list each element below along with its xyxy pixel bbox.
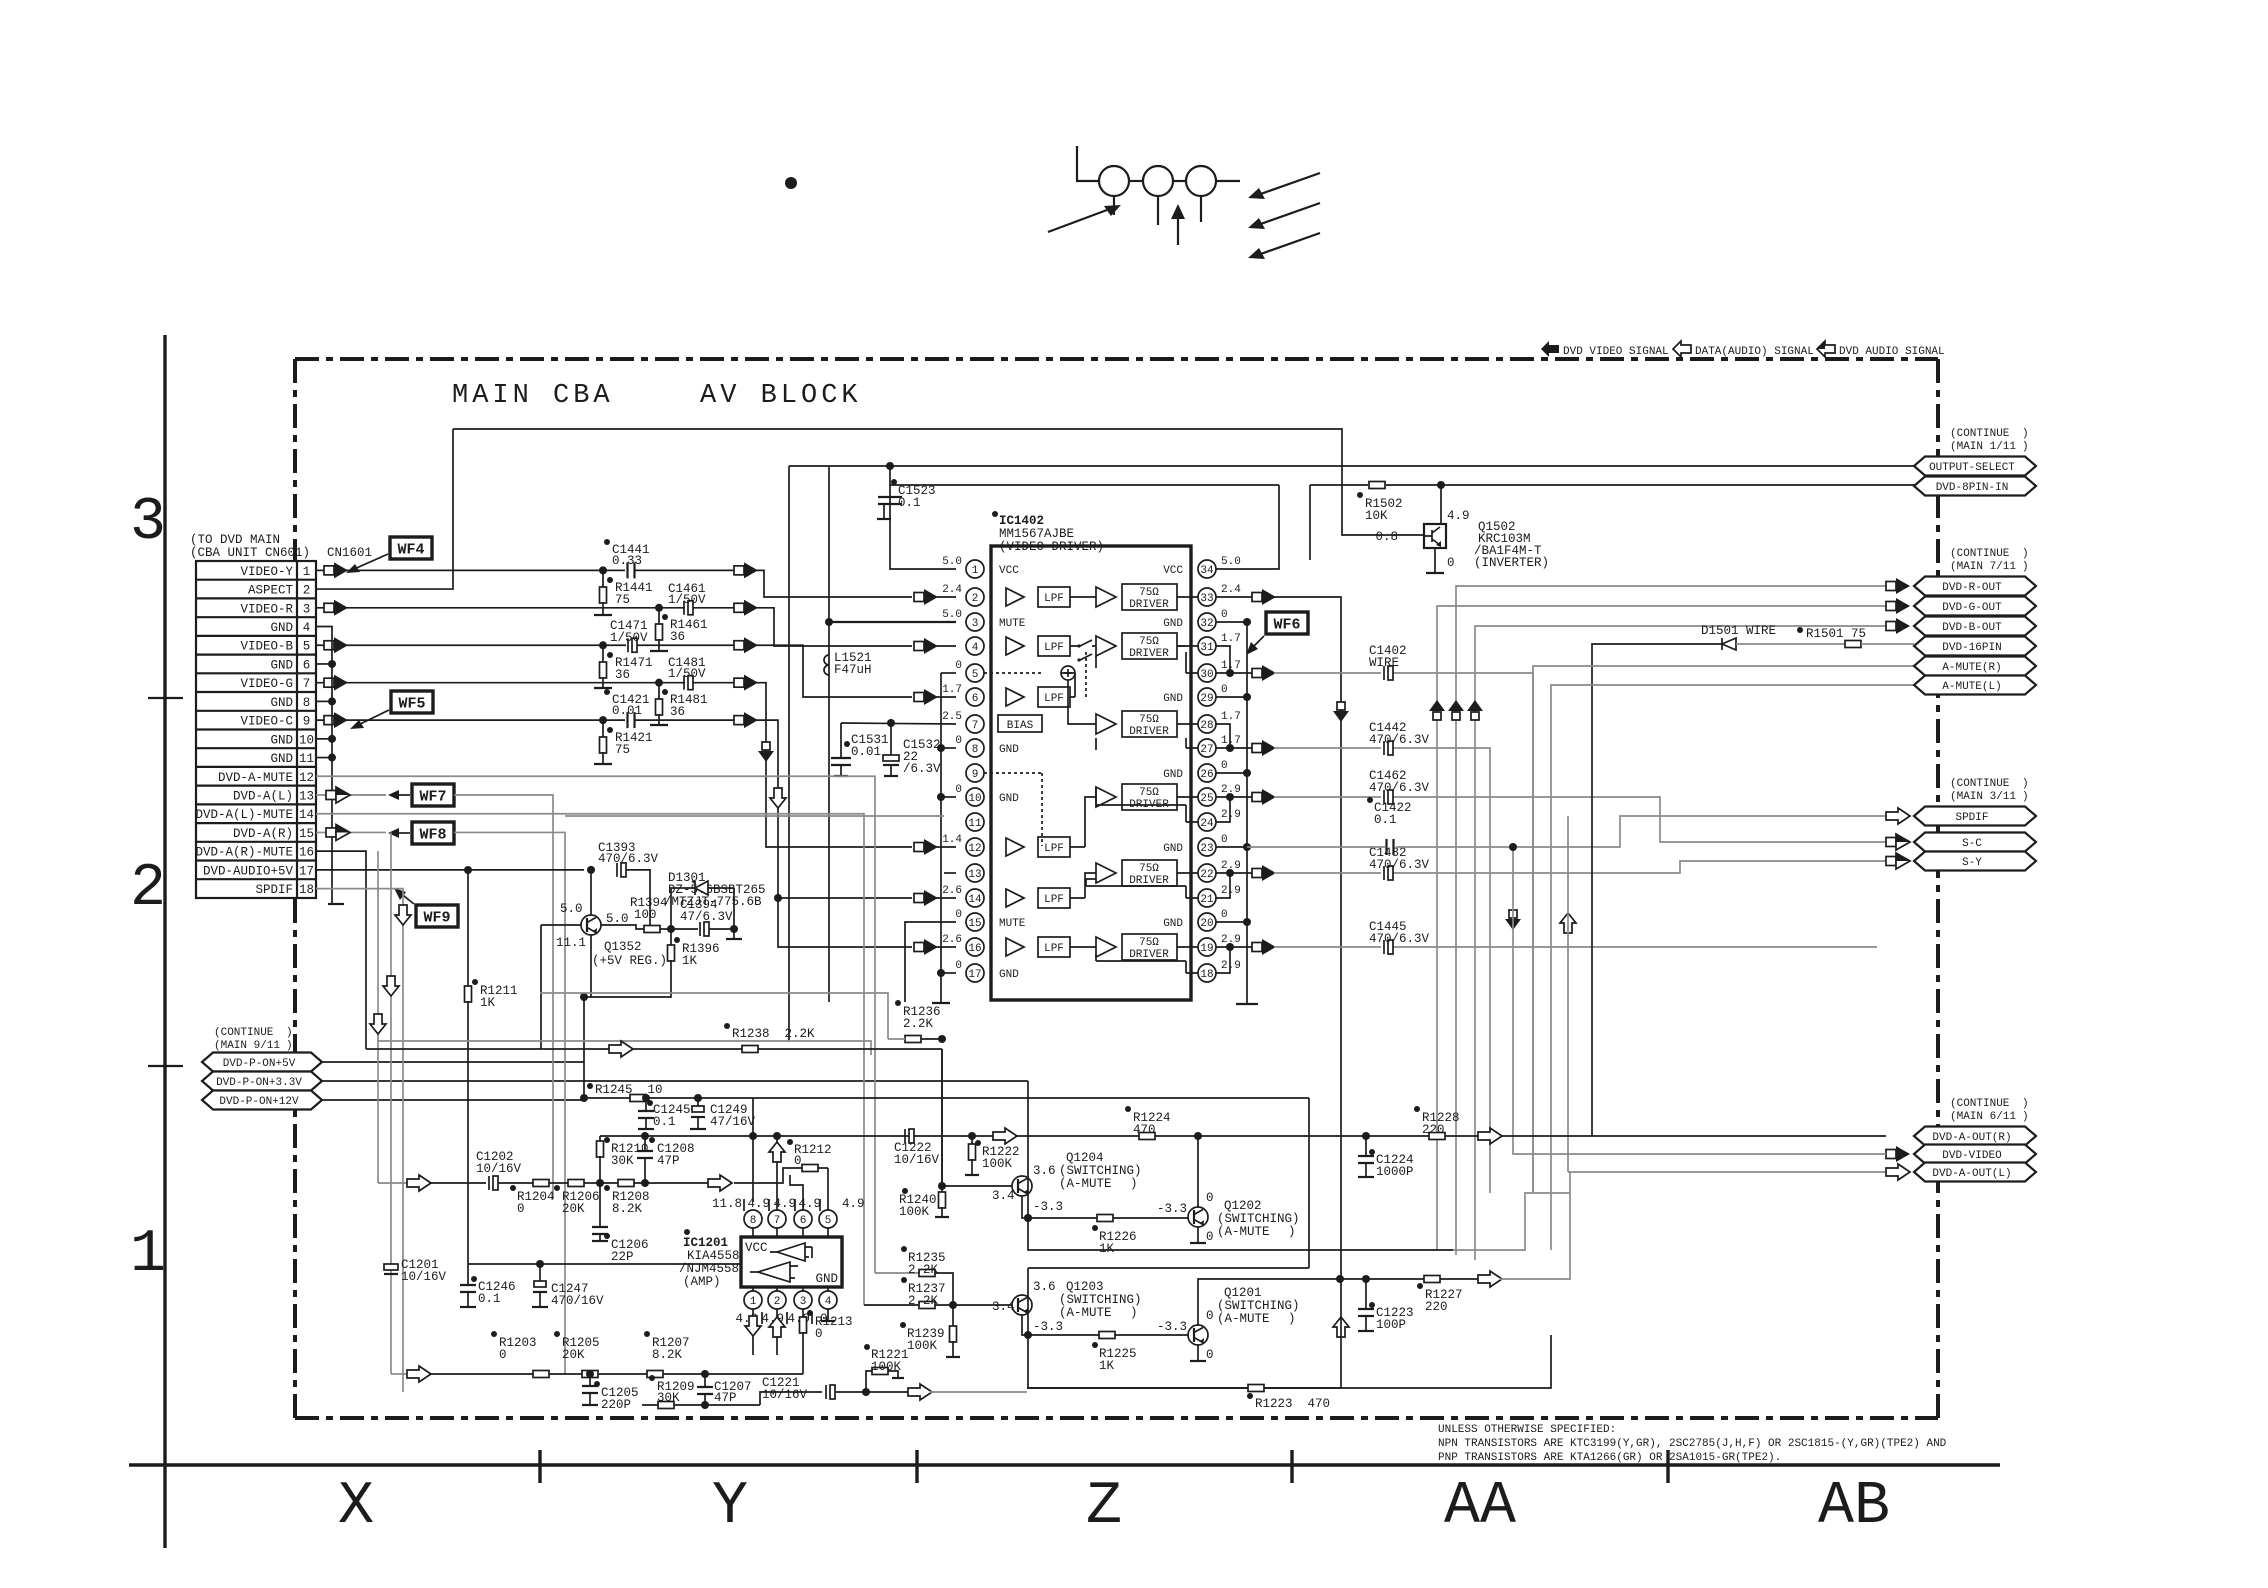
IC1402 pin 32 circle <box>1198 613 1216 631</box>
junction C1532 node <box>887 719 895 727</box>
junction pin30 output node <box>1226 669 1234 677</box>
svg-text:DVD-A(R): DVD-A(R) <box>233 827 293 841</box>
signal arrow into pin4 <box>914 642 924 651</box>
svg-text:S-Y: S-Y <box>1962 857 1982 869</box>
WF5 pointer arrow <box>356 710 389 726</box>
svg-text:F47uH: F47uH <box>834 663 872 677</box>
signal arrow pin25 output <box>1252 793 1262 802</box>
svg-text:8.2K: 8.2K <box>652 1348 683 1362</box>
IC1402 pin 8 circle <box>966 739 984 757</box>
svg-text:12: 12 <box>968 843 981 855</box>
svg-text:(A-MUTE: (A-MUTE <box>1217 1312 1270 1326</box>
svg-text:0: 0 <box>1447 556 1455 570</box>
IC1402 pin 11 circle <box>966 813 984 831</box>
legend icon DATA(AUDIO) SIGNAL <box>1673 341 1691 357</box>
solid down arrow on VIDEO-G jog <box>762 742 770 750</box>
junction pin25 output node <box>1226 793 1234 801</box>
audio arrow DVD-A(R) <box>326 828 336 837</box>
svg-text:75: 75 <box>615 743 630 757</box>
svg-text:1: 1 <box>303 565 311 579</box>
capacitor C1207 47P <box>704 1374 706 1386</box>
resistor R1223 470 <box>1248 1385 1264 1392</box>
solid up arrow on DVD-R riser <box>1452 712 1460 720</box>
svg-text:75Ω: 75Ω <box>1139 787 1159 799</box>
ground for R1441 <box>594 614 612 616</box>
svg-text:ASPECT: ASPECT <box>248 584 294 598</box>
svg-text:470/6.3V: 470/6.3V <box>1369 781 1430 795</box>
capacitor C1421 0.01 <box>628 712 635 728</box>
wire Q1202 collector to audio rail <box>1197 1136 1199 1207</box>
svg-text:LPF: LPF <box>1044 642 1064 654</box>
svg-text:32: 32 <box>1200 618 1213 630</box>
svg-text:0.1: 0.1 <box>653 1115 676 1129</box>
svg-text:5.0: 5.0 <box>606 912 629 926</box>
column tick X-Y <box>538 1450 541 1483</box>
svg-text:WF7: WF7 <box>419 789 446 806</box>
capacitor C1462 470/6.3V <box>1383 790 1385 804</box>
signal arrow into pin16 <box>914 943 924 952</box>
wire bottom out to right <box>930 1391 1027 1393</box>
junction C1245 node <box>642 1094 650 1102</box>
svg-text:47/6.3V: 47/6.3V <box>680 910 733 924</box>
ground for R1461 <box>650 650 668 652</box>
junction C1224 node <box>1362 1132 1370 1140</box>
svg-text:2.9: 2.9 <box>1221 809 1241 821</box>
wire Q1202 emitter to ground <box>1197 1227 1199 1242</box>
WF6 pointer arrow <box>1250 636 1264 650</box>
resistor R1237 2.2K <box>919 1302 935 1309</box>
decoration link wire 2-3 <box>1173 180 1186 182</box>
wire Q1352 base drop <box>540 925 542 1049</box>
junction node VIDEO-Y / R1441 <box>599 566 607 574</box>
junction rail / C1523 feed <box>886 462 894 470</box>
svg-text:0: 0 <box>955 960 962 972</box>
connector row divider 1 <box>196 579 316 581</box>
svg-text:DVD-8PIN-IN: DVD-8PIN-IN <box>1936 482 2009 494</box>
wire VIDEO-G to pin12 jog <box>760 683 912 847</box>
svg-text:): ) <box>2022 1111 2029 1123</box>
svg-text:14: 14 <box>968 894 982 906</box>
svg-text:OUTPUT-SELECT: OUTPUT-SELECT <box>1929 462 2015 474</box>
IC1402 driver amp triangle pin 19 <box>1096 937 1116 957</box>
resistor R1204 0 <box>533 1180 549 1187</box>
open arrow into DVD-A-OUT(L) <box>1886 1164 1910 1180</box>
decoration reel circle 1 <box>1099 166 1129 196</box>
svg-text:7: 7 <box>303 677 311 691</box>
svg-text:470/6.3V: 470/6.3V <box>1369 858 1430 872</box>
svg-text:GND: GND <box>270 621 293 635</box>
main block dash-dot border right edge <box>1936 359 1940 1418</box>
wire DVD-A(L) row 13 net continue <box>454 795 553 1199</box>
IC1402 pin 17 circle <box>966 964 984 982</box>
gray audio return wire 2 <box>377 1041 871 1055</box>
IC1402 driver output stubs <box>1177 597 1198 947</box>
wire DVD-A(R)-MUTE row 16 net <box>316 851 366 1049</box>
open arrow into DVD-A-OUT(R) <box>1478 1128 1502 1144</box>
wire DVD-P-ON+12V net <box>322 1098 584 1100</box>
left arrowhead WF7 <box>360 794 386 796</box>
connector row divider 14 <box>196 822 316 824</box>
transistor Q1201 switching A-mute <box>1188 1325 1208 1345</box>
IC1402 pin 10 circle <box>966 788 984 806</box>
junction R1210 bottom <box>596 1179 604 1187</box>
svg-text:10: 10 <box>299 733 314 747</box>
legend icon DVD VIDEO SIGNAL <box>1541 341 1559 357</box>
svg-text:22P: 22P <box>611 1250 634 1264</box>
svg-text:0: 0 <box>517 1202 525 1216</box>
svg-text:-3.3: -3.3 <box>1157 1202 1187 1216</box>
resistor R1502 10K <box>1310 484 1368 486</box>
svg-text:GND: GND <box>270 696 293 710</box>
waveform label WF6 <box>1266 612 1308 634</box>
junction node VIDEO-R / R1461 <box>655 604 663 612</box>
signal arrow VIDEO-Y to IC <box>734 566 744 575</box>
wire pin3 MUTE <box>829 621 956 623</box>
capacitor C1202 10/16V <box>488 1176 490 1190</box>
junction pin 20 on GND bus <box>1243 918 1251 926</box>
svg-text:7: 7 <box>774 1215 781 1227</box>
wire base feed Q1203 <box>864 1304 1012 1306</box>
net flag S-C <box>1914 833 2036 852</box>
signal arrow pin19 output <box>1252 943 1262 952</box>
wire left GND bus of IC <box>940 673 942 1002</box>
wire pin13 stub <box>944 872 956 874</box>
svg-text:0: 0 <box>499 1348 507 1362</box>
svg-text:VIDEO-G: VIDEO-G <box>240 677 293 691</box>
svg-text:16: 16 <box>968 943 981 955</box>
capacitor C1221 10/16V <box>825 1385 827 1399</box>
IC1402 pin 4 circle <box>966 637 984 655</box>
svg-text:-3.3: -3.3 <box>1033 1320 1063 1334</box>
junction pin3 MUTE node <box>825 618 833 626</box>
resistor R1212 0 <box>802 1165 818 1172</box>
svg-text:10: 10 <box>968 793 981 805</box>
svg-text:75Ω: 75Ω <box>1139 714 1159 726</box>
svg-text:100K: 100K <box>907 1339 938 1353</box>
svg-text:(+5V REG.): (+5V REG.) <box>592 954 667 968</box>
svg-text:VIDEO-Y: VIDEO-Y <box>240 565 293 579</box>
decoration reel circle 2 <box>1143 166 1173 196</box>
wire VIDEO-B to pin6 jog <box>760 645 912 697</box>
wire pin34 riser <box>1216 485 1279 569</box>
waveform label WF7 <box>412 784 454 806</box>
net flag DVD-A-OUT(R) <box>1914 1127 2036 1146</box>
svg-text:(MAIN 7/11: (MAIN 7/11 <box>1950 561 2016 573</box>
svg-text:): ) <box>286 1027 293 1039</box>
svg-text:MUTE: MUTE <box>999 618 1026 630</box>
signal arrow VIDEO-C to IC <box>734 716 744 725</box>
svg-text:(A-MUTE: (A-MUTE <box>1217 1225 1270 1239</box>
svg-text:DVD-G-OUT: DVD-G-OUT <box>1942 602 2002 614</box>
decoration incoming arrow 3 <box>1255 233 1320 256</box>
junction zener left node <box>667 925 675 933</box>
svg-text:16: 16 <box>299 846 314 860</box>
resistor R1421 75 <box>602 720 604 738</box>
wire pin27 output row (DVD-B) <box>1230 747 1252 749</box>
svg-text:WF5: WF5 <box>398 696 425 713</box>
svg-text:100: 100 <box>634 908 657 922</box>
svg-text:4: 4 <box>303 621 311 635</box>
junction GND bus row 10 <box>328 735 336 743</box>
svg-text:X: X <box>338 1473 374 1541</box>
svg-text:2.9: 2.9 <box>1221 885 1241 897</box>
wire Q1352 output through R1394 <box>601 925 644 929</box>
svg-text:18: 18 <box>299 883 314 897</box>
IC1402 pin 31 circle <box>1198 637 1216 655</box>
junction Q1352 on +5V audio net <box>587 866 595 874</box>
svg-text:DRIVER: DRIVER <box>1129 726 1169 738</box>
decoration up arrow under reel 2 <box>1177 212 1179 245</box>
signal arrow into DVD-VIDEO <box>1886 1150 1896 1159</box>
signal arrow VIDEO-R input <box>324 603 334 612</box>
riser wire to DVD-B-OUT flag <box>1475 626 1886 1260</box>
IC1402 pin 9 circle <box>966 764 984 782</box>
junction C1394 right node <box>730 925 738 933</box>
svg-text:1/50V: 1/50V <box>610 631 648 645</box>
svg-text:100K: 100K <box>982 1157 1013 1171</box>
capacitor C1445 470/6.3V <box>1383 940 1385 954</box>
IC1402 pin 28 circle <box>1198 715 1216 733</box>
wire mute out to R1227 <box>1366 1278 1424 1280</box>
ground for C1532 <box>884 775 898 777</box>
wire C1523 branch down to pin1 VCC <box>890 466 956 569</box>
IC1402 pin 18 circle <box>1198 964 1216 982</box>
svg-text:GND: GND <box>1163 618 1183 630</box>
decoration diagonal arrow into reel 1 <box>1048 207 1115 232</box>
ground for R1421 <box>594 763 612 765</box>
wire ASPECT rail to inverter base <box>453 429 1424 535</box>
resistor R1238 2.2K <box>742 1046 758 1053</box>
svg-text:AA: AA <box>1444 1473 1516 1541</box>
svg-text:VCC: VCC <box>999 565 1019 577</box>
signal arrow pin22 output <box>1252 869 1262 878</box>
waveform label WF9 <box>416 905 458 927</box>
svg-text:3.4: 3.4 <box>992 1300 1015 1314</box>
svg-text:24: 24 <box>1200 818 1214 830</box>
IC1201 labels <box>684 1229 690 1235</box>
wire SPDIF return vertical <box>1567 816 1569 1172</box>
column tick Y-Z <box>915 1450 918 1483</box>
IC1201 pin1 drop with down arrow <box>752 1309 754 1355</box>
svg-text:75Ω: 75Ω <box>1139 636 1159 648</box>
svg-text:VCC: VCC <box>745 1241 768 1255</box>
svg-text:75Ω: 75Ω <box>1139 937 1159 949</box>
svg-text:2.9: 2.9 <box>1221 960 1241 972</box>
svg-text:2.2K: 2.2K <box>908 1263 939 1277</box>
open arrow audio chain 2 <box>407 1366 431 1382</box>
signal arrow VIDEO-B input <box>324 641 334 650</box>
riser wire to DVD-R-OUT flag <box>1456 586 1886 1255</box>
wire GND stub row 6 <box>316 663 332 665</box>
wire DVD-A(R) row 15 net continue <box>454 832 565 1374</box>
wire pin21 join to pin22 row <box>1216 873 1230 898</box>
svg-text:DRIVER: DRIVER <box>1129 648 1169 660</box>
svg-text:34: 34 <box>1200 565 1214 577</box>
junction R1211 top on +5V audio net <box>464 866 472 874</box>
wire Q1352 base left <box>541 924 581 926</box>
wire 5V rail drop <box>788 466 790 1041</box>
wire WF9 net horizontal <box>366 1048 742 1050</box>
junction R1502 / DVD-8PIN-IN net <box>1437 481 1445 489</box>
wire R1502 feed vertical <box>1309 485 1311 560</box>
wire 5V rail (OUTPUT-SELECT net) <box>789 465 2036 467</box>
junction R1222 node <box>968 1132 976 1140</box>
svg-text:(CBA UNIT CN601): (CBA UNIT CN601) <box>190 546 310 560</box>
IC1402 input buffer triangle pin 6 <box>1006 688 1024 706</box>
wire pin22 output row (S-Y) <box>1230 872 1252 874</box>
gray drop with down arrow A <box>390 832 392 1374</box>
transistor Q1204 switching A-mute <box>1012 1176 1032 1196</box>
capacitor C1205 220P <box>589 1374 591 1385</box>
svg-text:20K: 20K <box>562 1348 585 1362</box>
signal arrow into DVD-R-OUT <box>1886 582 1896 591</box>
svg-text:0.8: 0.8 <box>1375 530 1398 544</box>
wire collector of Q1502 <box>1440 485 1442 524</box>
IC1402 75 ohm DRIVER block pin 25 <box>1122 784 1177 810</box>
wire VIDEO-G row <box>316 682 685 684</box>
wire VIDEO-Y to pin2 jog <box>760 570 912 597</box>
svg-text:10/16V: 10/16V <box>401 1270 447 1284</box>
junction R1239 node <box>949 1301 957 1309</box>
svg-text:): ) <box>2022 548 2029 560</box>
op-amp A triangle inside IC1201 <box>777 1243 805 1261</box>
decoration dot <box>785 177 797 189</box>
svg-text:2: 2 <box>130 855 166 923</box>
IC1402 pin 20 circle <box>1198 913 1216 931</box>
resistor R1396 1K <box>670 929 672 946</box>
svg-text:23: 23 <box>1200 843 1213 855</box>
wire GND stub row 8 <box>316 700 332 702</box>
svg-text:10K: 10K <box>1365 509 1388 523</box>
svg-text:47/16V: 47/16V <box>710 1115 756 1129</box>
svg-text:0.01: 0.01 <box>851 745 881 759</box>
svg-text:A-MUTE(R): A-MUTE(R) <box>1942 662 2001 674</box>
svg-text:DVD-A-OUT(L): DVD-A-OUT(L) <box>1932 1168 2011 1180</box>
svg-text:(CONTINUE: (CONTINUE <box>214 1027 274 1039</box>
waveform label WF5 <box>391 691 433 713</box>
ground for C1245 <box>638 1128 654 1130</box>
connector row divider 2 <box>196 597 316 599</box>
svg-text:(A-MUTE: (A-MUTE <box>1059 1306 1112 1320</box>
wire DVD-16PIN feed riser <box>1592 644 1722 1136</box>
transistor Q1202 switching A-mute <box>1188 1207 1208 1227</box>
svg-text:15: 15 <box>299 827 314 841</box>
wire pin33 output row <box>1216 596 1252 598</box>
decoration stem under reel 2 <box>1157 196 1159 225</box>
svg-text:0: 0 <box>955 660 962 672</box>
svg-text:LPF: LPF <box>1044 894 1064 906</box>
svg-text:28: 28 <box>1200 720 1213 732</box>
svg-text:3: 3 <box>972 618 979 630</box>
solid down arrow lower right <box>1509 910 1517 918</box>
wire SPDIF row 18 net <box>316 889 403 1392</box>
wire Q1201 emitter to ground <box>1197 1345 1199 1360</box>
IC1402 pin 1 circle <box>966 560 984 578</box>
capacitor C1249 47/16V <box>697 1098 699 1108</box>
svg-text:(AMP): (AMP) <box>683 1275 721 1289</box>
IC1402 LPF block pin 4 <box>1038 636 1070 656</box>
svg-text:1: 1 <box>750 1296 757 1308</box>
wire DVD-8PIN-IN net <box>1441 484 2036 486</box>
capacitor C1532 22/6.3V <box>883 755 899 761</box>
svg-text:GND: GND <box>999 969 1019 981</box>
main block dash-dot border bottom edge <box>295 1416 1938 1420</box>
svg-text:100P: 100P <box>1376 1318 1406 1332</box>
resistor R1203 0 <box>533 1371 549 1378</box>
svg-text:1K: 1K <box>1099 1242 1115 1256</box>
svg-text:): ) <box>1288 1312 1296 1326</box>
svg-text:2.2K: 2.2K <box>908 1294 939 1308</box>
resistor R1206 20K <box>568 1180 584 1187</box>
wire DVD-VIDEO riser <box>1513 847 1886 1154</box>
svg-text:0: 0 <box>815 1327 823 1341</box>
wire pin15 MUTE stub <box>905 922 956 1002</box>
svg-text:0: 0 <box>1221 609 1228 621</box>
junction R1209/C1207 nodes <box>701 1370 709 1378</box>
svg-text:DVD VIDEO SIGNAL: DVD VIDEO SIGNAL <box>1563 346 1669 358</box>
svg-text:LPF: LPF <box>1044 843 1064 855</box>
svg-text:): ) <box>2022 428 2029 440</box>
IC1201 top pins 8 7 6 5 <box>744 1210 762 1228</box>
connector row divider 7 <box>196 691 316 693</box>
IC1402 pin 21 circle <box>1198 889 1216 907</box>
wire GND bus from connector pins 4,6,8,10,11 <box>316 627 332 898</box>
ground for C1246 <box>460 1306 476 1308</box>
resistor R1213 0 on pin3 drop <box>802 1309 804 1318</box>
wire DVD-A-MUTE row 12 net <box>316 776 875 1273</box>
svg-text:33: 33 <box>1200 593 1213 605</box>
svg-text:2.6: 2.6 <box>942 934 962 946</box>
capacitor C1222 10/16V <box>904 1129 906 1143</box>
IC1402 75 ohm DRIVER block pin 22 <box>1122 860 1177 886</box>
open up arrow lower right <box>1560 913 1576 933</box>
svg-text:DVD-AUDIO+5V: DVD-AUDIO+5V <box>203 864 294 878</box>
connector row divider 3 <box>196 616 316 618</box>
capacitor C1481 1/50V <box>683 676 685 690</box>
svg-text:13: 13 <box>968 869 981 881</box>
column tick Z-AA <box>1290 1450 1293 1483</box>
svg-text:0.1: 0.1 <box>1374 813 1397 827</box>
resistor R1207 8.2K <box>647 1371 663 1378</box>
wire pin17 GND stub <box>941 972 956 974</box>
net flag DVD-8PIN-IN <box>1914 477 2036 496</box>
svg-text:100K: 100K <box>899 1205 930 1219</box>
svg-text:220: 220 <box>1425 1300 1448 1314</box>
zener diode D1301 <box>671 888 734 929</box>
junction R1240 node <box>938 1182 946 1190</box>
IC1402 input buffer triangle pin 12 <box>1006 838 1024 856</box>
wire pin 26 GND stub to bus <box>1216 772 1247 774</box>
connector row divider 13 <box>196 803 316 805</box>
signal arrow VIDEO-R to IC <box>734 603 744 612</box>
capacitor C1394 47/6.3V <box>671 928 698 930</box>
svg-text:GND: GND <box>1163 693 1183 705</box>
open up arrow on R1223 riser <box>1333 1317 1349 1337</box>
net flag DVD-16PIN <box>1914 637 2036 656</box>
svg-text:DVD AUDIO SIGNAL: DVD AUDIO SIGNAL <box>1839 346 1945 358</box>
svg-text:15: 15 <box>968 918 981 930</box>
svg-text:8: 8 <box>303 696 311 710</box>
open down arrow on drop B <box>370 1014 386 1034</box>
svg-text:NPN TRANSISTORS ARE KTC3199(Y,: NPN TRANSISTORS ARE KTC3199(Y,GR), 2SC27… <box>1438 1438 1947 1450</box>
junction R1236/R1238 node <box>938 1035 946 1043</box>
IC1402 75 ohm DRIVER block pin 31 <box>1122 633 1177 659</box>
junction GND bus row 11 <box>328 754 336 762</box>
svg-text:0: 0 <box>1206 1191 1214 1205</box>
svg-text:DVD-P-ON+5V: DVD-P-ON+5V <box>223 1058 296 1070</box>
svg-text:GND: GND <box>1163 769 1183 781</box>
svg-text:0.1: 0.1 <box>898 496 921 510</box>
